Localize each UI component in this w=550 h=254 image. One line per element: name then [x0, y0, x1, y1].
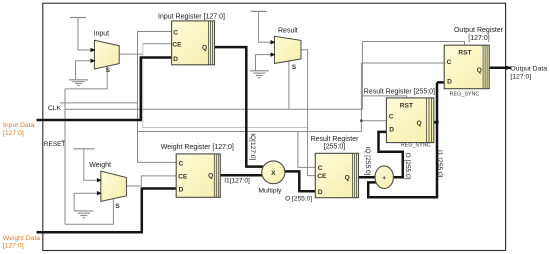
svg-text:Result Register [255:0]: Result Register [255:0] [364, 88, 435, 95]
bus: Weight Register Q (I1[127:0]) to Multiply [220, 174, 262, 177]
svg-text:C: C [173, 30, 178, 37]
tie-high for Weight mux [73, 149, 101, 180]
input arrow 0 of Input mux [91, 48, 96, 52]
svg-text:D: D [318, 189, 323, 196]
svg-text:RST: RST [400, 103, 413, 110]
svg-text:D: D [173, 56, 178, 63]
wire: RESET stub to rail [62, 140, 66, 142]
port label Weight Data [127:0] [3, 235, 40, 250]
svg-text:IQ [255:0]: IQ [255:0] [364, 147, 371, 176]
wire: reset line to Result mux select S [65, 108, 362, 110]
tie-high for Input mux [70, 18, 94, 51]
svg-text:RESET: RESET [44, 141, 66, 148]
svg-text:Output Register: Output Register [454, 27, 504, 34]
svg-text:O [255:0]: O [255:0] [285, 196, 312, 203]
bus: Multiply output O[255:0] to Result Register D [285, 171, 315, 191]
wire: Result mux output down to Result Register CE [301, 50, 315, 176]
ground for Result mux [250, 55, 275, 78]
wire: CE net vertical and faint horizontal run [143, 44, 308, 128]
mux Input [91, 30, 120, 73]
input arrow 0 of Result mux [271, 40, 276, 44]
svg-text:X: X [271, 170, 276, 177]
svg-text:Multiply: Multiply [258, 187, 282, 194]
svg-text:Input Data: Input Data [3, 122, 35, 129]
port label Input Data [127:0] [3, 122, 35, 137]
adder + [375, 166, 393, 189]
junction: Q tap on feedback rail [435, 120, 439, 124]
wire: clock tap to Output Register C [361, 62, 444, 64]
svg-text:D: D [389, 127, 394, 134]
svg-text:[127:0]: [127:0] [3, 243, 24, 250]
input arrow 1 of Input mux [91, 59, 96, 63]
bus: Input Register Q (IQ[127:0]) to Multiply [215, 47, 264, 167]
svg-text:Result: Result [278, 28, 298, 35]
wire: reset vertical rail [64, 89, 66, 224]
register Result Register [255:0] (CE) [311, 136, 360, 198]
svg-text:Weight Data: Weight Data [3, 235, 40, 242]
register Output Register [127:0] (RST REG_SYNC) [444, 27, 503, 98]
wire: rail to Weight mux select S [65, 199, 113, 225]
wire: CLK stub to C-rail [60, 102, 138, 104]
svg-text:C: C [318, 165, 323, 172]
mux Result [271, 28, 302, 71]
register Result Register [255:0] (RST REG_SYNC) [364, 88, 435, 148]
bus: Input Data into Input Register D [37, 58, 172, 121]
svg-text:Q: Q [208, 172, 213, 179]
input arrow 1 of Weight mux [97, 191, 102, 195]
multiplier Multiply [258, 161, 285, 194]
svg-text:Q: Q [202, 44, 207, 51]
svg-text:Q: Q [477, 67, 482, 74]
svg-text:RST: RST [458, 49, 471, 56]
wire: Weight mux output to Weight Register CE [126, 176, 176, 186]
svg-text:S: S [115, 203, 120, 210]
svg-text:CE: CE [172, 42, 182, 49]
svg-text:Input Register [127:0]: Input Register [127:0] [158, 13, 225, 20]
svg-text:[127:0]: [127:0] [510, 73, 531, 80]
svg-text:Weight Register [127:0]: Weight Register [127:0] [161, 144, 234, 151]
svg-text:D: D [447, 79, 452, 86]
input arrow 0 of Weight mux [97, 178, 102, 182]
svg-text:REG_SYNC: REG_SYNC [450, 92, 480, 98]
svg-text:Weight: Weight [89, 162, 111, 169]
svg-text:Q: Q [345, 175, 350, 182]
input arrow 1 of Result mux [271, 52, 276, 56]
wire: Input mux output to Input Register CE [119, 44, 171, 54]
svg-text:S: S [292, 64, 297, 71]
svg-text:D: D [179, 187, 184, 194]
svg-text:C: C [179, 161, 184, 168]
svg-text:IQ[127:0]: IQ[127:0] [249, 133, 256, 160]
tie-high for Result mux [251, 11, 275, 42]
port label Output Data [127:0] [510, 65, 547, 80]
wire: Result mux S drop [288, 61, 290, 109]
svg-text:[127:0]: [127:0] [3, 130, 24, 137]
wire: clock horizontal run [138, 131, 362, 133]
ground for Weight mux [74, 193, 101, 218]
svg-text:Input: Input [94, 30, 110, 37]
register Weight Register [127:0] [161, 144, 234, 197]
bus: Weight Data into Weight Register D [37, 189, 177, 233]
wire: clock rail vertical with C pin of Input Register [138, 32, 172, 163]
wire: clock tap to RST Result Register C [361, 120, 386, 122]
svg-text:C: C [447, 59, 452, 66]
mux Weight [89, 162, 126, 210]
wire: clock drop to Result Register C [298, 132, 315, 168]
svg-text:O [255:0]: O [255:0] [404, 153, 411, 180]
wire: reset riser right cluster [361, 42, 363, 110]
junction: output port dot [505, 66, 509, 70]
svg-text:[255:0]: [255:0] [324, 143, 345, 150]
bus: Result Register Q to adder [359, 176, 376, 179]
svg-text:+: + [382, 175, 386, 182]
bus: RST Result Register Q feedback rail I1[255:0] [368, 82, 444, 197]
wire: clock riser right cluster [360, 63, 362, 132]
svg-text:I1 [255:0]: I1 [255:0] [436, 150, 443, 178]
svg-text:I1[127:0]: I1[127:0] [224, 178, 250, 185]
svg-text:CLK: CLK [48, 105, 62, 112]
svg-text:REG_SYNC: REG_SYNC [401, 143, 431, 149]
bus: adder output O[255:0] to RST Result Register D [379, 132, 403, 177]
svg-text:Q: Q [417, 120, 422, 127]
wire: rail to Input mux select S [65, 66, 107, 89]
svg-text:Result Register: Result Register [311, 136, 360, 143]
junction on clock riser [360, 119, 363, 122]
ground for Input mux [69, 61, 94, 86]
svg-text:Output Data: Output Data [510, 65, 547, 72]
wire: reset tap into Output Register top [362, 42, 464, 46]
svg-text:C: C [389, 114, 394, 121]
svg-text:[127:0]: [127:0] [468, 35, 489, 42]
bus: Output Register Q to Output Data port [489, 67, 511, 70]
svg-text:S: S [106, 67, 111, 74]
svg-text:CE: CE [317, 173, 327, 180]
svg-text:CE: CE [178, 174, 188, 181]
wire: clock branch to Weight Register C [138, 161, 177, 163]
wire: reset tap into RST Result Register top [362, 96, 406, 98]
register Input Register [127:0] [158, 13, 225, 64]
